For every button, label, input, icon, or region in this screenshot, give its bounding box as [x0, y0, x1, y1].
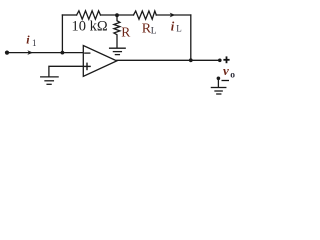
- minus sign vo terminal: [222, 80, 230, 82]
- resistor RL zigzag: [134, 11, 157, 19]
- wire output: [117, 59, 220, 61]
- svg-text:v: v: [223, 63, 229, 78]
- svg-text:i: i: [171, 19, 175, 33]
- node dot feedback junction: [61, 51, 65, 55]
- arrow i1 on input wire: [27, 50, 33, 55]
- resistor 10 kOhm zigzag: [77, 11, 101, 19]
- op-amp plus input marker: [84, 63, 90, 69]
- wire right vertical: [190, 15, 192, 60]
- wire between 10k and RL: [101, 14, 134, 16]
- svg-text:10 kΩ: 10 kΩ: [72, 19, 108, 35]
- wire noninverting input: [49, 66, 83, 76]
- plus sign output terminal: [223, 56, 229, 63]
- svg-text:L: L: [151, 27, 157, 37]
- svg-text:o: o: [230, 71, 235, 81]
- ground under R: [110, 48, 126, 54]
- wire top left segment: [62, 14, 76, 16]
- op-amp U1 triangle: [83, 46, 117, 77]
- node dot output terminal: [218, 59, 222, 63]
- ground at noninverting input: [41, 77, 58, 84]
- wire input horizontal: [7, 52, 83, 54]
- resistor R vertical zigzag: [114, 15, 120, 47]
- wire feedback vertical: [61, 15, 63, 53]
- ground at vo: [211, 88, 225, 95]
- svg-text:L: L: [176, 23, 182, 33]
- node dot input terminal: [5, 51, 9, 55]
- arrow iL on top wire: [170, 13, 176, 18]
- svg-text:R: R: [121, 24, 130, 39]
- svg-text:1: 1: [32, 38, 37, 48]
- wire vo ground stem: [217, 78, 219, 87]
- node dot output junction: [189, 58, 193, 62]
- op-amp minus input marker: [85, 52, 90, 54]
- wire top right segment: [156, 14, 191, 16]
- node dot vo minus terminal: [217, 77, 221, 81]
- node dot top junction: [115, 13, 119, 17]
